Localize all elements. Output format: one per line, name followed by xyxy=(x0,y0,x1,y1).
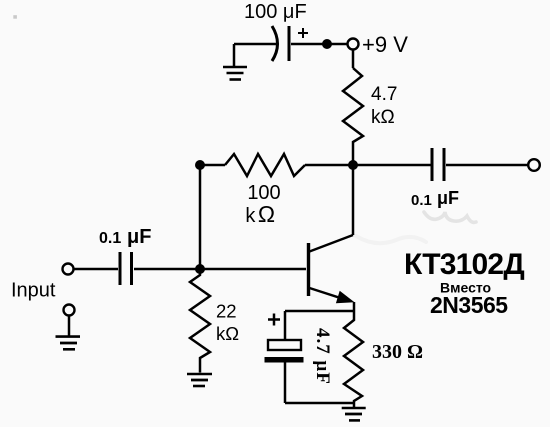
svg-text:330 Ω: 330 Ω xyxy=(372,341,423,363)
svg-text:kΩ: kΩ xyxy=(371,107,395,128)
svg-text:2N3565: 2N3565 xyxy=(430,292,508,318)
svg-text:kΩ: kΩ xyxy=(216,323,239,344)
svg-text:μF: μF xyxy=(127,226,151,248)
svg-text:Input: Input xyxy=(11,280,56,302)
svg-text:100 μF: 100 μF xyxy=(244,1,307,23)
svg-text:4.7 μF: 4.7 μF xyxy=(312,328,333,385)
svg-text:kΩ: kΩ xyxy=(245,201,277,227)
svg-text:4.7: 4.7 xyxy=(371,84,397,105)
svg-text:μF: μF xyxy=(437,188,459,208)
svg-text:22: 22 xyxy=(216,301,237,322)
svg-text:+9 V: +9 V xyxy=(362,32,408,57)
svg-text:0.1: 0.1 xyxy=(99,230,121,247)
svg-text:КТ3102Д: КТ3102Д xyxy=(404,248,524,281)
svg-text:0.1: 0.1 xyxy=(411,192,432,209)
